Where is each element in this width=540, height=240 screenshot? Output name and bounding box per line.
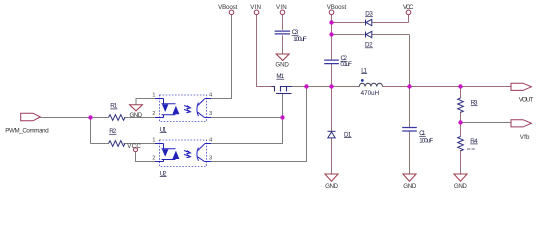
svg-text:VBoost: VBoost (327, 4, 347, 11)
svg-text:4: 4 (209, 137, 213, 143)
svg-text:Vfb: Vfb (520, 134, 530, 141)
svg-text:GND: GND (275, 61, 289, 68)
svg-text:R1: R1 (110, 103, 118, 110)
svg-text:100uF: 100uF (293, 36, 307, 43)
svg-text:2: 2 (152, 155, 155, 161)
svg-text:470uH: 470uH (361, 90, 380, 97)
svg-text:PWM_Command: PWM_Command (5, 127, 49, 134)
svg-text:GND: GND (403, 183, 417, 190)
svg-text:3: 3 (209, 111, 212, 117)
svg-text:VBoost: VBoost (218, 4, 237, 11)
svg-text:2: 2 (152, 111, 155, 117)
svg-text:4: 4 (209, 92, 213, 98)
svg-text:VIN: VIN (250, 4, 261, 11)
svg-text:0.1uF: 0.1uF (340, 61, 352, 68)
svg-text:VIN: VIN (276, 4, 287, 11)
svg-text:GND: GND (130, 112, 143, 119)
svg-text:GND: GND (454, 183, 468, 190)
svg-text:1: 1 (152, 137, 155, 143)
svg-text:VCC: VCC (403, 4, 414, 11)
svg-text:1: 1 (152, 92, 155, 98)
svg-text:VOUT: VOUT (519, 96, 534, 103)
svg-text:100uF: 100uF (419, 138, 433, 145)
svg-text:3: 3 (209, 155, 212, 161)
svg-text:VCC: VCC (127, 143, 141, 150)
svg-text:GND: GND (325, 183, 339, 190)
